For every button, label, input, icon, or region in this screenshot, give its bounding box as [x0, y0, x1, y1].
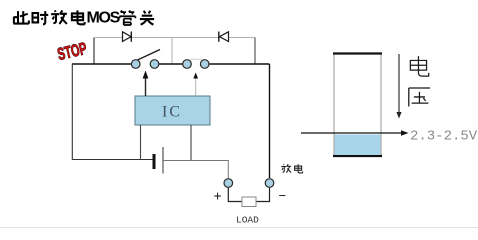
- gauge level fill: [335, 135, 381, 156]
- diode D1: [123, 32, 132, 42]
- wire: load loop left: [228, 188, 242, 202]
- switch lever (open) Q1: [138, 50, 161, 61]
- IC block U1: [135, 96, 210, 125]
- wire: mid junction vertical: [171, 38, 173, 65]
- svg-text:2.3-2.5V: 2.3-2.5V: [410, 129, 478, 145]
- svg-text:+: +: [214, 188, 222, 204]
- wire: battery to plus terminal: [163, 161, 228, 191]
- switch lever (closed) Q2: [190, 58, 203, 60]
- wire: main bus: [72, 63, 270, 65]
- minus terminal: [265, 179, 274, 188]
- bottom page edge line: [0, 227, 478, 229]
- load resistor: [242, 197, 256, 207]
- svg-text:−: −: [279, 188, 287, 203]
- battery gauge outline: [333, 54, 382, 157]
- 放电 label: [281, 164, 302, 173]
- threshold arrow: [301, 130, 409, 136]
- voltage down arrow: [396, 54, 401, 119]
- wire: right drop to minus terminal: [269, 64, 271, 178]
- wire: top-left vertical: [93, 38, 95, 65]
- battery B1: [154, 147, 163, 174]
- IC pin wire right: [190, 125, 192, 160]
- plus terminal: [224, 179, 233, 188]
- svg-text:MOS: MOS: [87, 10, 121, 27]
- title 此时放电MOS管关: [14, 10, 155, 25]
- IC pin wire left: [140, 125, 142, 160]
- MOS switch Q1 contact circles: [131, 60, 158, 69]
- STOP warning text: [56, 39, 89, 64]
- 电压 label: [409, 56, 430, 106]
- wire: top bus: [94, 37, 255, 39]
- wire: top-right vertical: [254, 38, 256, 65]
- svg-text:STOP: STOP: [56, 39, 89, 64]
- gate drive arrow 2: [193, 73, 198, 97]
- wire: load loop right: [256, 188, 270, 202]
- svg-text:IC: IC: [162, 104, 182, 121]
- MOS switch Q2 contact circles: [183, 60, 209, 69]
- gate drive arrow 1: [143, 71, 149, 97]
- diode D2: [219, 32, 229, 42]
- svg-text:LOAD: LOAD: [236, 215, 259, 226]
- wire: left branch to battery: [72, 64, 152, 160]
